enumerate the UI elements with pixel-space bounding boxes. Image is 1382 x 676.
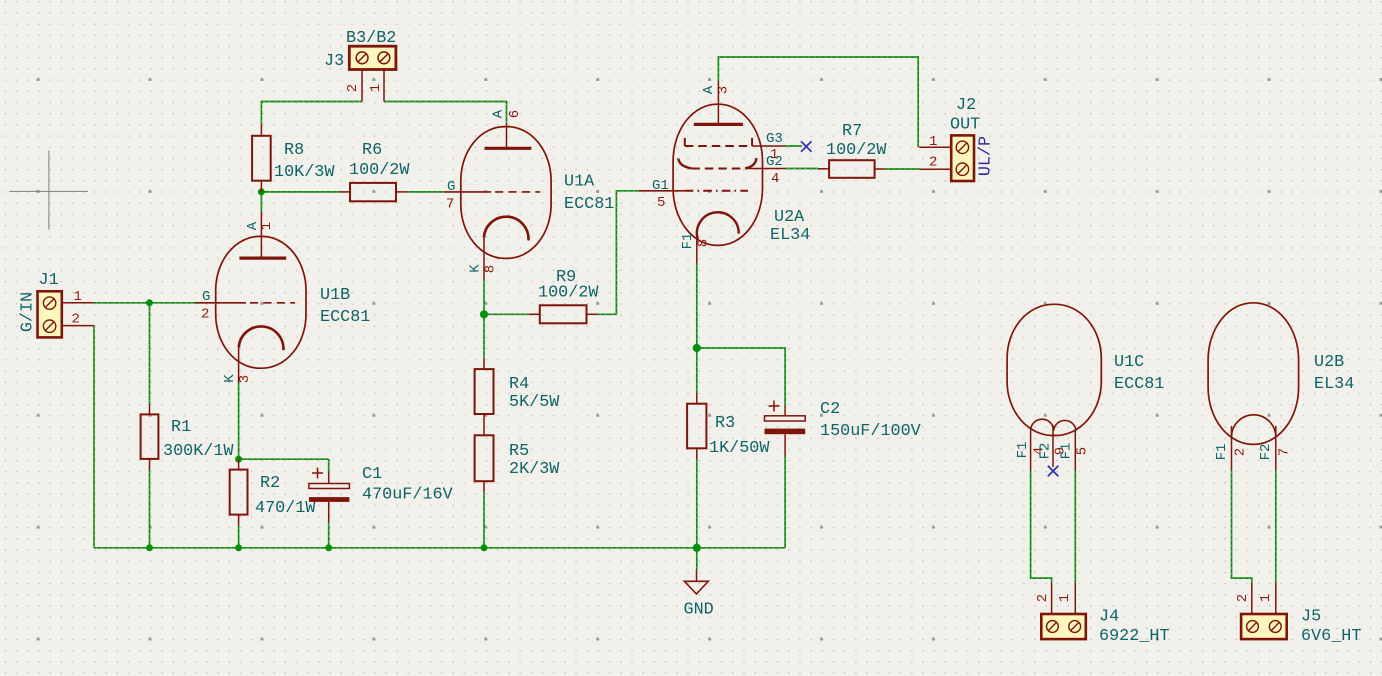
- junction R1/J1 node: [146, 299, 153, 306]
- no-connect X on U1C center tap: [1048, 466, 1059, 477]
- svg-text:5K/5W: 5K/5W: [509, 393, 560, 412]
- svg-text:8: 8: [696, 239, 712, 247]
- svg-text:R2: R2: [260, 474, 280, 493]
- svg-text:C2: C2: [820, 400, 840, 419]
- svg-text:R4: R4: [509, 375, 529, 394]
- wire R3 bottom: [696, 459, 698, 548]
- svg-text:2: 2: [1235, 594, 1251, 602]
- junction R8/R6 node: [258, 188, 265, 195]
- svg-text:J1: J1: [39, 271, 59, 290]
- svg-text:100/2W: 100/2W: [349, 161, 410, 180]
- tube U2A pentode: [639, 81, 811, 264]
- svg-text:J4: J4: [1099, 608, 1119, 627]
- wire J3 pin2 to R8: [261, 102, 362, 125]
- connector J4: [1035, 583, 1169, 646]
- svg-text:G: G: [202, 289, 210, 305]
- junction R9/R4 node: [480, 310, 488, 318]
- wire U1A cathode down: [483, 280, 485, 315]
- svg-text:5: 5: [657, 195, 665, 211]
- svg-text:2K/3W: 2K/3W: [509, 460, 560, 479]
- svg-text:100/2W: 100/2W: [826, 141, 887, 160]
- svg-text:R8: R8: [284, 141, 304, 160]
- connector J3: [324, 29, 396, 102]
- tube U1C heater section: [1007, 304, 1164, 470]
- svg-text:1: 1: [929, 134, 937, 150]
- svg-text:10K/3W: 10K/3W: [274, 163, 335, 182]
- svg-text:300K/1W: 300K/1W: [163, 442, 234, 461]
- resistor R9: [529, 268, 600, 323]
- sheet origin crosshair: [9, 151, 88, 230]
- svg-text:EL34: EL34: [770, 226, 810, 245]
- svg-text:G3: G3: [766, 131, 783, 147]
- junction rail R1: [146, 544, 153, 551]
- svg-text:6V6_HT: 6V6_HT: [1301, 627, 1361, 646]
- svg-text:2: 2: [1035, 594, 1051, 602]
- wire U2B heater right to J5 pin1: [1275, 470, 1277, 583]
- svg-text:1: 1: [1057, 594, 1073, 602]
- wire U1C heater right to J4 pin1: [1074, 470, 1076, 583]
- wire U1B cathode to R2: [238, 383, 240, 459]
- svg-text:470/1W: 470/1W: [255, 499, 316, 518]
- capacitor C2: [765, 400, 921, 456]
- svg-text:6: 6: [507, 110, 523, 118]
- wire node to R4: [483, 314, 485, 358]
- resistor R5: [475, 414, 561, 492]
- connector J2: [919, 96, 995, 181]
- svg-text:1: 1: [368, 84, 384, 92]
- svg-text:U1A: U1A: [564, 173, 595, 192]
- svg-text:3: 3: [237, 375, 253, 383]
- tube U2B heater section: [1208, 303, 1354, 471]
- junction R2/C1 node: [235, 456, 242, 463]
- svg-text:4: 4: [771, 171, 779, 187]
- junction rail R5: [481, 544, 488, 551]
- svg-text:ECC81: ECC81: [320, 308, 370, 327]
- wire R1 top: [149, 303, 151, 404]
- svg-text:7: 7: [446, 197, 454, 213]
- svg-text:R7: R7: [842, 122, 862, 141]
- resistor R2: [230, 459, 317, 525]
- svg-text:G1: G1: [652, 178, 669, 194]
- ground symbol: [684, 570, 714, 619]
- wire U2A g2 to R7: [786, 168, 818, 170]
- svg-text:F1: F1: [1015, 442, 1031, 459]
- wire R5 bottom: [483, 492, 485, 548]
- svg-text:1: 1: [259, 222, 275, 230]
- svg-text:F1: F1: [1059, 443, 1075, 460]
- svg-text:3: 3: [716, 86, 732, 94]
- wire R6 to U1A grid: [407, 191, 444, 193]
- svg-text:R1: R1: [171, 418, 191, 437]
- svg-text:5: 5: [1075, 447, 1091, 455]
- junction rail C1: [325, 544, 332, 551]
- svg-text:G: G: [447, 179, 455, 195]
- wire U2B heater left to J5 pin2: [1232, 470, 1252, 583]
- wire C1 top lead: [328, 459, 330, 472]
- wire J1 pin1 to U1B grid: [94, 302, 195, 304]
- wire R1 bottom: [149, 470, 151, 548]
- svg-text:150uF/100V: 150uF/100V: [820, 422, 921, 441]
- svg-text:OUT: OUT: [950, 116, 980, 135]
- svg-text:6922_HT: 6922_HT: [1099, 627, 1170, 646]
- svg-text:K: K: [222, 374, 238, 383]
- capacitor C1: [309, 465, 453, 522]
- connector J5: [1235, 583, 1361, 646]
- wire bottom rail: [94, 547, 785, 549]
- svg-text:C1: C1: [362, 465, 382, 484]
- svg-text:ECC81: ECC81: [1114, 375, 1164, 394]
- wire R2 bottom: [238, 526, 240, 548]
- wire node to U1B anode: [260, 192, 262, 211]
- wire R2 node to C1: [239, 458, 329, 460]
- junction rail R2: [235, 544, 242, 551]
- wire U2A cathode down: [696, 264, 698, 393]
- svg-text:7: 7: [1277, 448, 1293, 456]
- svg-text:2: 2: [1233, 448, 1249, 456]
- wire gnd lead: [696, 548, 698, 570]
- svg-text:F2: F2: [1038, 443, 1054, 460]
- svg-text:U1B: U1B: [320, 286, 350, 305]
- svg-text:J2: J2: [956, 96, 976, 115]
- wire grid-dot texture overlay: [94, 57, 1276, 583]
- wire C2 bottom: [784, 456, 786, 548]
- svg-text:R5: R5: [509, 442, 529, 461]
- wire J1 pin2 down: [93, 326, 95, 548]
- wire U2A anode to J2 pin1: [718, 57, 918, 147]
- svg-text:2: 2: [929, 154, 937, 170]
- junction rail GND: [693, 544, 701, 552]
- no-connect X on U2A G3: [801, 141, 812, 152]
- wire R8 bottom node to R6: [261, 191, 339, 193]
- svg-text:470uF/16V: 470uF/16V: [362, 486, 453, 505]
- resistor R4: [475, 358, 561, 414]
- svg-text:G/IN: G/IN: [18, 292, 37, 332]
- wire R7 to J2 pin2: [886, 168, 920, 170]
- svg-text:1K/50W: 1K/50W: [709, 439, 770, 458]
- svg-text:2: 2: [72, 312, 80, 328]
- svg-text:F1: F1: [1214, 444, 1230, 461]
- svg-text:100/2W: 100/2W: [538, 284, 599, 303]
- svg-text:UL/P: UL/P: [976, 136, 995, 176]
- svg-text:U2B: U2B: [1314, 353, 1344, 372]
- wire C1 bottom: [328, 522, 330, 548]
- svg-text:A: A: [490, 109, 506, 118]
- svg-text:R3: R3: [715, 414, 735, 433]
- svg-text:J3: J3: [324, 52, 344, 71]
- svg-text:R6: R6: [362, 141, 382, 160]
- resistor R3: [687, 393, 770, 460]
- svg-text:8: 8: [482, 265, 498, 273]
- wire J3 pin1 to U1A anode: [384, 102, 507, 123]
- svg-text:J5: J5: [1301, 608, 1321, 627]
- svg-text:GND: GND: [684, 600, 714, 619]
- wire R9 to U2A grid1: [598, 191, 639, 314]
- svg-text:2: 2: [345, 84, 361, 92]
- svg-text:G2: G2: [766, 154, 783, 170]
- resistor R8: [252, 125, 335, 192]
- svg-text:1: 1: [74, 289, 82, 305]
- svg-text:F1: F1: [680, 233, 696, 250]
- svg-text:U1C: U1C: [1114, 353, 1144, 372]
- wire U1C heater left to J4 pin2: [1031, 470, 1052, 583]
- resistor R1: [141, 404, 235, 470]
- tube U1A triode: [444, 109, 614, 279]
- svg-text:ECC81: ECC81: [564, 195, 614, 214]
- svg-text:B3/B2: B3/B2: [346, 29, 396, 48]
- resistor R7: [818, 122, 887, 178]
- svg-text:2: 2: [201, 307, 209, 323]
- svg-text:F2: F2: [1258, 444, 1274, 461]
- svg-text:K: K: [467, 264, 483, 273]
- svg-text:1: 1: [1258, 594, 1274, 602]
- wire node to R9: [484, 313, 529, 315]
- junction R3/C2 node: [693, 344, 701, 352]
- resistor R6: [339, 141, 410, 201]
- tube U1B triode: [195, 211, 371, 383]
- svg-text:U2A: U2A: [774, 208, 805, 227]
- wire U2A g3 stub: [786, 145, 803, 147]
- svg-text:EL34: EL34: [1314, 375, 1354, 394]
- connector J1: [18, 271, 94, 337]
- wire cathode node to C2 top: [697, 348, 785, 406]
